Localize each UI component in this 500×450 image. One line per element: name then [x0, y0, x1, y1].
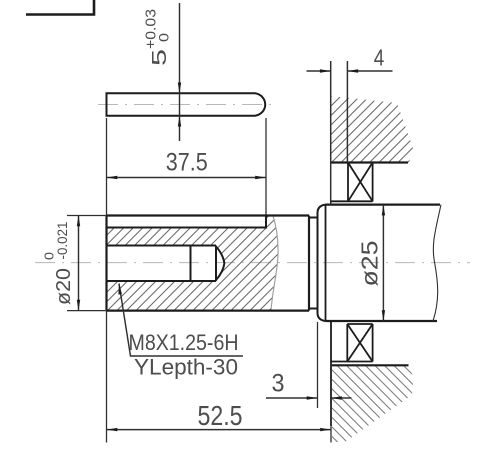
svg-text:YLepth-30: YLepth-30 [134, 355, 238, 380]
centerline of keyway top view [98, 104, 271, 106]
svg-text:ø20: ø20 [52, 268, 75, 305]
section hatching of Ø20 shaft body [107, 216, 279, 311]
flange chamfer edge line [325, 205, 327, 321]
svg-text:M8X1.25-6H: M8X1.25-6H [129, 330, 239, 355]
seal seat face line (left of 4 dim) [330, 61, 332, 205]
leader arrowhead [118, 284, 122, 295]
bearing symbol (bottom, crossed box) [331, 324, 373, 362]
flange bottom edge [326, 320, 438, 322]
thread end line [190, 246, 192, 282]
dimension 37.5: dimension line with arrows [107, 176, 267, 180]
dimension 4: dimension lines with arrows [307, 69, 393, 72]
dimension Ø20: dimension line with arrows [77, 216, 80, 311]
dimension Ø25: dimension line with arrows [382, 205, 385, 321]
svg-text:0: 0 [156, 33, 172, 42]
flange Ø25 left face with rounded corners [318, 205, 326, 321]
keyway notch profile (front view) [107, 216, 267, 228]
dimension 5: arrow at keyway bottom edge [178, 116, 181, 127]
Ø20 shaft outline [107, 216, 310, 311]
tapped hole M8 profile with drill point [107, 246, 217, 282]
bearing symbol (top, crossed box) [331, 163, 373, 202]
keyway slot outline (top view, round-ended) [107, 93, 266, 115]
dimension 5: arrow at keyway top edge [178, 83, 181, 94]
dimension 37.5: left extension line [106, 118, 108, 216]
seal seat face line (right of 4 dim) [346, 61, 348, 163]
svg-text:ø25: ø25 [356, 241, 382, 287]
svg-text:5: 5 [149, 49, 171, 66]
svg-text:3: 3 [272, 371, 285, 398]
housing wall top edge (bottom side) [332, 364, 409, 366]
svg-text:4: 4 [374, 44, 385, 70]
drawing frame corner (top-left) [26, 0, 94, 15]
leader line to tapped hole [119, 284, 243, 357]
shaft axis centerline [35, 262, 470, 264]
dimension Ø20: bottom extension line [67, 310, 107, 312]
dimension 52.5: dimension line with arrows [107, 428, 332, 431]
dimension 3: dimension lines with arrows [266, 396, 352, 399]
flange top edge [326, 204, 441, 206]
neck step between Ø20 and flange [309, 218, 318, 309]
drill point cone [216, 247, 224, 281]
housing wall section hatching (top) [331, 96, 413, 163]
dimension 52.5: right extension line [330, 405, 332, 443]
dimension 52.5: left extension line [106, 311, 108, 443]
housing wall left face (bottom side) [330, 322, 332, 426]
dimension Ø20: top extension line [67, 215, 107, 217]
dimension 37.5: right extension line [265, 118, 267, 216]
svg-text:37.5: 37.5 [166, 149, 208, 177]
break line at right end [433, 205, 441, 321]
svg-text:52.5: 52.5 [198, 400, 243, 431]
svg-text:-0.021: -0.021 [55, 222, 70, 260]
housing wall section hatching (bottom) [332, 365, 414, 442]
wavy partial-section break line [271, 216, 278, 311]
housing wall bottom edge (top side) [331, 161, 408, 163]
svg-text:+0.03: +0.03 [143, 9, 160, 49]
dimension 5 +0.03/0: dimension line [179, 3, 181, 141]
dimension 3: extension line from flange corner [317, 322, 319, 408]
svg-text:0: 0 [42, 252, 57, 260]
